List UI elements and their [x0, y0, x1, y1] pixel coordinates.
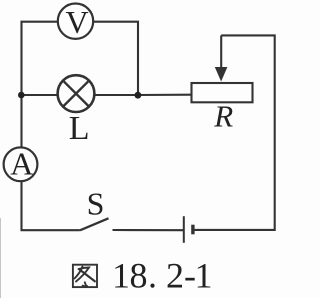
- wire: node A to lamp: [22, 94, 59, 96]
- svg-text:A: A: [10, 146, 33, 182]
- svg-text:V: V: [65, 4, 88, 40]
- node B junction dot: [135, 92, 142, 99]
- wire: lamp to node B: [94, 94, 138, 96]
- lamp L circle: [58, 75, 95, 112]
- scan edge artifact: [0, 218, 2, 298]
- wire: switch right contact to battery: [113, 229, 184, 231]
- wire: node A down to ammeter: [20, 95, 22, 148]
- wire: top-left corner to voltmeter: [22, 22, 58, 95]
- voltmeter V circle: [58, 4, 93, 39]
- wire: ammeter to bottom corner, then to switch: [22, 181, 80, 230]
- svg-text:R: R: [213, 98, 233, 133]
- caption text 18.2-1: [112, 256, 213, 296]
- caption character 图 (drawn strokes): [73, 265, 97, 287]
- battery positive plate (long): [183, 216, 185, 243]
- ammeter A circle: [4, 147, 38, 181]
- svg-text:S: S: [87, 186, 105, 222]
- svg-text:8: 8: [130, 256, 148, 296]
- rheostat R body: [192, 83, 253, 102]
- node A junction dot: [18, 92, 25, 99]
- switch S blade: [80, 218, 109, 230]
- battery negative plate (short thick): [191, 225, 194, 235]
- svg-text:1: 1: [195, 256, 213, 296]
- svg-text:2: 2: [166, 256, 184, 296]
- svg-text:.: .: [148, 256, 157, 296]
- rheostat arrowhead: [215, 67, 228, 82]
- svg-text:L: L: [69, 110, 90, 147]
- wire: battery right, up right side, top to arrow: [194, 35, 275, 230]
- wire: voltmeter right lead and drop to node B: [94, 22, 138, 92]
- lamp cross: [63, 81, 89, 107]
- svg-text:1: 1: [112, 256, 130, 296]
- wire: rheostat arrow stem: [220, 35, 222, 69]
- wire: node B to rheostat: [138, 94, 191, 96]
